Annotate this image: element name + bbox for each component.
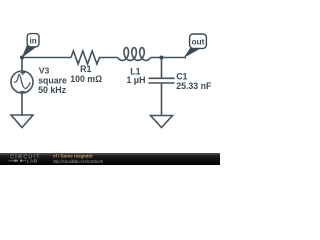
svg-text:1 μH: 1 μH — [126, 75, 145, 85]
svg-text:square: square — [38, 75, 67, 85]
svg-text:http://circuitlab.com/c4c5ce5: http://circuitlab.com/c4c5ce5 — [53, 159, 104, 164]
svg-text:LAB: LAB — [27, 159, 38, 165]
svg-text:100 mΩ: 100 mΩ — [70, 74, 102, 84]
svg-text:25.33 nF: 25.33 nF — [176, 81, 212, 91]
svg-text:*: * — [16, 159, 18, 164]
svg-text:R1: R1 — [80, 64, 91, 74]
svg-text:out: out — [192, 38, 205, 47]
svg-text:in: in — [29, 36, 36, 45]
svg-text:V3: V3 — [39, 66, 50, 76]
svg-text:50 kHz: 50 kHz — [38, 85, 66, 95]
